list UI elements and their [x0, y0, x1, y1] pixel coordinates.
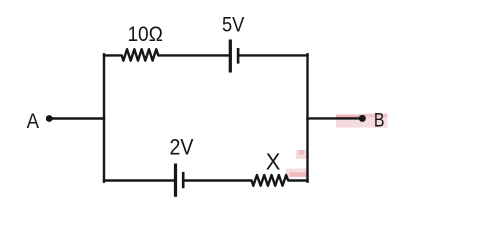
- svg-text:5V: 5V: [222, 14, 244, 37]
- svg-text:10Ω: 10Ω: [127, 23, 163, 46]
- svg-text:X: X: [266, 149, 281, 175]
- svg-text:B: B: [374, 111, 385, 132]
- svg-text:A: A: [27, 109, 40, 133]
- svg-text:2V: 2V: [170, 135, 194, 160]
